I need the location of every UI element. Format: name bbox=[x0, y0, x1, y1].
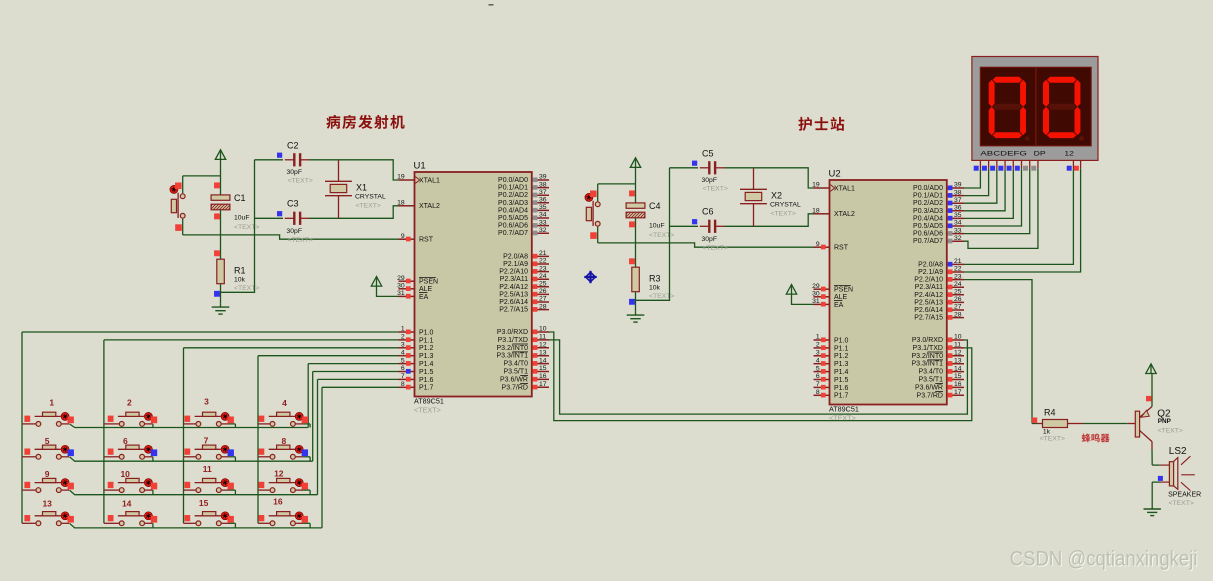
svg-text:P2.6/A14: P2.6/A14 bbox=[914, 307, 943, 314]
svg-text:3: 3 bbox=[204, 396, 209, 406]
svg-text:P1.5: P1.5 bbox=[834, 377, 849, 384]
svg-text:15: 15 bbox=[954, 373, 962, 380]
svg-text:16: 16 bbox=[273, 496, 283, 506]
svg-text:C1: C1 bbox=[234, 193, 246, 203]
svg-text:P0.0/AD0: P0.0/AD0 bbox=[498, 177, 528, 184]
svg-text:<TEXT>: <TEXT> bbox=[649, 293, 674, 300]
svg-text:26: 26 bbox=[954, 296, 962, 303]
svg-text:<TEXT>: <TEXT> bbox=[1040, 436, 1065, 443]
svg-text:8: 8 bbox=[401, 381, 405, 388]
svg-text:ALE: ALE bbox=[419, 286, 433, 293]
svg-text:15: 15 bbox=[199, 498, 209, 508]
svg-text:P0.3/AD3: P0.3/AD3 bbox=[498, 200, 528, 207]
svg-text:24: 24 bbox=[539, 273, 547, 280]
svg-text:RST: RST bbox=[419, 237, 434, 244]
svg-text:<TEXT>: <TEXT> bbox=[1169, 500, 1194, 507]
svg-text:R3: R3 bbox=[649, 274, 661, 284]
svg-text:35: 35 bbox=[539, 204, 547, 211]
svg-text:23: 23 bbox=[539, 265, 547, 272]
svg-text:P1.7: P1.7 bbox=[419, 385, 434, 392]
svg-text:P3.1/TXD: P3.1/TXD bbox=[913, 345, 943, 352]
svg-text:37: 37 bbox=[539, 189, 547, 196]
svg-text:P2.6/A14: P2.6/A14 bbox=[499, 299, 528, 306]
svg-text:10uF: 10uF bbox=[649, 223, 665, 230]
svg-text:8: 8 bbox=[816, 389, 820, 396]
svg-text:5: 5 bbox=[816, 365, 820, 372]
svg-text:12: 12 bbox=[274, 468, 284, 478]
svg-text:P0.1/AD1: P0.1/AD1 bbox=[913, 193, 943, 200]
svg-text:P3.7/RD: P3.7/RD bbox=[502, 384, 528, 391]
svg-text:30: 30 bbox=[812, 291, 820, 298]
svg-text:XTAL1: XTAL1 bbox=[834, 185, 855, 192]
svg-text:ABCDEFG: ABCDEFG bbox=[980, 151, 1027, 158]
svg-text:P3.7/RD: P3.7/RD bbox=[917, 392, 943, 399]
svg-text:P1.4: P1.4 bbox=[834, 369, 849, 376]
svg-text:P3.5/T1: P3.5/T1 bbox=[503, 369, 528, 376]
svg-text:1: 1 bbox=[49, 397, 54, 407]
svg-text:30pF: 30pF bbox=[702, 236, 718, 243]
svg-text:16: 16 bbox=[539, 373, 547, 380]
svg-text:5: 5 bbox=[401, 357, 405, 364]
svg-text:P2.1/A9: P2.1/A9 bbox=[918, 269, 943, 276]
svg-text:P2.3/A11: P2.3/A11 bbox=[500, 276, 528, 283]
svg-text:14: 14 bbox=[539, 357, 547, 364]
svg-text:1k: 1k bbox=[1043, 428, 1051, 435]
svg-text:10k: 10k bbox=[234, 276, 246, 283]
svg-text:P1.1: P1.1 bbox=[419, 337, 434, 344]
svg-text:3: 3 bbox=[401, 342, 405, 349]
svg-text:16: 16 bbox=[954, 381, 962, 388]
svg-text:P0.7/AD7: P0.7/AD7 bbox=[498, 230, 528, 237]
svg-text:P3.2/INT0: P3.2/INT0 bbox=[911, 353, 943, 360]
svg-text:EA: EA bbox=[834, 302, 844, 309]
svg-text:2: 2 bbox=[816, 342, 820, 349]
svg-text:P2.5/A13: P2.5/A13 bbox=[914, 299, 943, 306]
svg-text:14: 14 bbox=[122, 498, 132, 508]
svg-text:2: 2 bbox=[401, 334, 405, 341]
svg-text:P0.0/AD0: P0.0/AD0 bbox=[913, 185, 943, 192]
svg-text:32: 32 bbox=[539, 227, 547, 234]
svg-text:17: 17 bbox=[954, 389, 962, 396]
svg-text:13: 13 bbox=[539, 349, 547, 356]
svg-text:11: 11 bbox=[203, 464, 212, 474]
svg-text:<TEXT>: <TEXT> bbox=[703, 186, 728, 193]
svg-text:1: 1 bbox=[816, 334, 820, 341]
svg-text:6: 6 bbox=[816, 373, 820, 380]
svg-text:13: 13 bbox=[42, 498, 52, 508]
svg-text:14: 14 bbox=[954, 365, 962, 372]
svg-text:10: 10 bbox=[120, 469, 130, 479]
svg-text:8: 8 bbox=[282, 436, 287, 446]
svg-text:P2.3/A11: P2.3/A11 bbox=[915, 284, 943, 291]
svg-text:22: 22 bbox=[954, 266, 962, 273]
svg-text:U2: U2 bbox=[829, 169, 841, 180]
svg-text:<TEXT>: <TEXT> bbox=[356, 202, 381, 209]
svg-text:<TEXT>: <TEXT> bbox=[234, 224, 259, 231]
svg-text:P0.6/AD6: P0.6/AD6 bbox=[498, 223, 528, 230]
svg-text:27: 27 bbox=[539, 296, 547, 303]
svg-text:P2.1/A9: P2.1/A9 bbox=[503, 261, 528, 268]
svg-text:U1: U1 bbox=[414, 161, 426, 172]
svg-text:4: 4 bbox=[282, 398, 287, 408]
svg-text:<TEXT>: <TEXT> bbox=[234, 285, 259, 292]
svg-text:P2.5/A13: P2.5/A13 bbox=[499, 291, 528, 298]
svg-text:39: 39 bbox=[954, 182, 962, 189]
svg-text:<TEXT>: <TEXT> bbox=[771, 210, 796, 217]
svg-text:AT89C51: AT89C51 bbox=[829, 405, 859, 414]
svg-text:4: 4 bbox=[401, 349, 405, 356]
svg-text:9: 9 bbox=[401, 233, 405, 240]
svg-text:30: 30 bbox=[397, 283, 405, 290]
svg-text:27: 27 bbox=[954, 304, 962, 311]
svg-text:P2.2/A10: P2.2/A10 bbox=[499, 269, 528, 276]
svg-text:29: 29 bbox=[397, 275, 405, 282]
svg-text:<TEXT>: <TEXT> bbox=[414, 406, 441, 415]
svg-text:37: 37 bbox=[954, 197, 962, 204]
svg-text:X2: X2 bbox=[771, 191, 782, 201]
svg-text:P3.2/INT0: P3.2/INT0 bbox=[496, 345, 528, 352]
svg-text:34: 34 bbox=[539, 212, 547, 219]
svg-text:P0.7/AD7: P0.7/AD7 bbox=[913, 238, 943, 245]
svg-text:11: 11 bbox=[539, 334, 546, 341]
svg-text:32: 32 bbox=[954, 235, 962, 242]
svg-text:P2.7/A15: P2.7/A15 bbox=[499, 307, 528, 314]
svg-text:6: 6 bbox=[123, 436, 128, 446]
svg-text:23: 23 bbox=[954, 273, 962, 280]
svg-text:21: 21 bbox=[539, 250, 547, 257]
svg-text:P0.4/AD4: P0.4/AD4 bbox=[913, 215, 943, 222]
svg-text:AT89C51: AT89C51 bbox=[414, 397, 444, 406]
svg-text:CRYSTAL: CRYSTAL bbox=[355, 193, 386, 200]
svg-text:P0.3/AD3: P0.3/AD3 bbox=[913, 208, 943, 215]
svg-text:9: 9 bbox=[816, 241, 820, 248]
svg-text:12: 12 bbox=[1064, 151, 1074, 158]
svg-text:33: 33 bbox=[539, 219, 547, 226]
svg-text:P1.6: P1.6 bbox=[834, 385, 849, 392]
svg-text:P0.6/AD6: P0.6/AD6 bbox=[913, 231, 943, 238]
svg-text:SPEAKER: SPEAKER bbox=[1168, 492, 1201, 499]
svg-text:X1: X1 bbox=[356, 183, 367, 193]
svg-text:P3.1/TXD: P3.1/TXD bbox=[498, 337, 528, 344]
svg-text:P1.0: P1.0 bbox=[419, 329, 434, 336]
svg-text:30pF: 30pF bbox=[287, 228, 303, 235]
svg-text:10: 10 bbox=[954, 334, 962, 341]
svg-text:<TEXT>: <TEXT> bbox=[649, 232, 674, 239]
svg-text:28: 28 bbox=[954, 311, 962, 318]
svg-text:P2.2/A10: P2.2/A10 bbox=[914, 277, 943, 284]
svg-text:C2: C2 bbox=[287, 141, 299, 151]
svg-text:12: 12 bbox=[954, 350, 962, 357]
svg-text:10: 10 bbox=[539, 326, 547, 333]
svg-text:4: 4 bbox=[816, 357, 820, 364]
svg-text:<TEXT>: <TEXT> bbox=[288, 237, 313, 244]
svg-text:30pF: 30pF bbox=[702, 177, 718, 184]
svg-text:C5: C5 bbox=[702, 149, 714, 159]
svg-text:34: 34 bbox=[954, 220, 962, 227]
svg-text:PNP: PNP bbox=[1158, 418, 1172, 425]
svg-text:CSDN @cqtianxingkeji: CSDN @cqtianxingkeji bbox=[1010, 548, 1198, 571]
svg-text:P1.3: P1.3 bbox=[834, 361, 849, 368]
svg-text:30pF: 30pF bbox=[287, 169, 303, 176]
svg-text:EA: EA bbox=[419, 294, 429, 301]
svg-text:P1.3: P1.3 bbox=[419, 353, 434, 360]
svg-text:1: 1 bbox=[401, 326, 405, 333]
svg-text:P3.0/RXD: P3.0/RXD bbox=[497, 329, 528, 336]
svg-text:P2.0/A8: P2.0/A8 bbox=[503, 253, 528, 260]
svg-text:PSEN: PSEN bbox=[419, 279, 438, 286]
svg-text:P1.1: P1.1 bbox=[834, 345, 849, 352]
svg-text:9: 9 bbox=[45, 469, 50, 479]
svg-text:39: 39 bbox=[539, 174, 547, 181]
svg-text:25: 25 bbox=[539, 281, 547, 288]
svg-text:25: 25 bbox=[954, 289, 962, 296]
svg-text:P2.0/A8: P2.0/A8 bbox=[918, 261, 943, 268]
svg-text:P0.1/AD1: P0.1/AD1 bbox=[498, 185, 528, 192]
svg-text:P2.4/A12: P2.4/A12 bbox=[499, 284, 528, 291]
svg-text:29: 29 bbox=[812, 283, 820, 290]
svg-text:<TEXT>: <TEXT> bbox=[288, 178, 313, 185]
svg-text:P3.5/T1: P3.5/T1 bbox=[918, 377, 943, 384]
svg-text:P1.2: P1.2 bbox=[419, 345, 434, 352]
svg-text:22: 22 bbox=[539, 258, 547, 265]
svg-text:10uF: 10uF bbox=[234, 215, 250, 222]
svg-text:R1: R1 bbox=[234, 266, 246, 276]
svg-text:5: 5 bbox=[45, 436, 50, 446]
svg-text:P3.3/INT1: P3.3/INT1 bbox=[496, 353, 528, 360]
svg-text:P3.6/WR: P3.6/WR bbox=[915, 384, 943, 391]
svg-text:XTAL1: XTAL1 bbox=[419, 177, 440, 184]
svg-text:P1.7: P1.7 bbox=[834, 393, 849, 400]
svg-text:P0.5/AD5: P0.5/AD5 bbox=[913, 223, 943, 230]
svg-text:P0.2/AD2: P0.2/AD2 bbox=[498, 192, 528, 199]
svg-text:C3: C3 bbox=[287, 198, 299, 208]
svg-text:7: 7 bbox=[204, 436, 209, 446]
svg-text:C6: C6 bbox=[702, 206, 714, 216]
svg-text:P1.4: P1.4 bbox=[419, 361, 434, 368]
svg-text:CRYSTAL: CRYSTAL bbox=[770, 201, 801, 208]
svg-text:P3.6/WR: P3.6/WR bbox=[500, 376, 528, 383]
svg-text:R4: R4 bbox=[1044, 408, 1056, 418]
svg-text:21: 21 bbox=[954, 258, 962, 265]
svg-text:7: 7 bbox=[401, 373, 405, 380]
svg-text:12: 12 bbox=[539, 342, 547, 349]
svg-text:P2.7/A15: P2.7/A15 bbox=[914, 315, 943, 322]
svg-text:P1.6: P1.6 bbox=[419, 377, 434, 384]
svg-text:38: 38 bbox=[539, 181, 547, 188]
svg-text:P0.5/AD5: P0.5/AD5 bbox=[498, 215, 528, 222]
svg-text:RST: RST bbox=[834, 245, 849, 252]
svg-text:P1.2: P1.2 bbox=[834, 353, 849, 360]
svg-text:11: 11 bbox=[954, 342, 961, 349]
svg-text:17: 17 bbox=[539, 381, 547, 388]
svg-text:LS2: LS2 bbox=[1169, 446, 1187, 457]
svg-text:24: 24 bbox=[954, 281, 962, 288]
svg-text:26: 26 bbox=[539, 288, 547, 295]
svg-text:P1.0: P1.0 bbox=[834, 337, 849, 344]
svg-text:P3.3/INT1: P3.3/INT1 bbox=[911, 361, 943, 368]
svg-text:XTAL2: XTAL2 bbox=[834, 211, 855, 218]
svg-text:ALE: ALE bbox=[834, 294, 848, 301]
svg-text:7: 7 bbox=[816, 381, 820, 388]
svg-text:36: 36 bbox=[954, 205, 962, 212]
svg-text:15: 15 bbox=[539, 365, 547, 372]
svg-text:XTAL2: XTAL2 bbox=[419, 203, 440, 210]
svg-text:DP: DP bbox=[1034, 151, 1047, 158]
svg-text:PSEN: PSEN bbox=[834, 287, 853, 294]
svg-text:<TEXT>: <TEXT> bbox=[703, 245, 728, 252]
svg-text:P0.2/AD2: P0.2/AD2 bbox=[913, 200, 943, 207]
svg-text:3: 3 bbox=[816, 350, 820, 357]
svg-text:P2.4/A12: P2.4/A12 bbox=[914, 292, 943, 299]
svg-text:P3.4/T0: P3.4/T0 bbox=[503, 361, 528, 368]
svg-text:33: 33 bbox=[954, 227, 962, 234]
svg-text:13: 13 bbox=[954, 357, 962, 364]
svg-text:P1.5: P1.5 bbox=[419, 369, 434, 376]
svg-text:6: 6 bbox=[401, 365, 405, 372]
svg-text:2: 2 bbox=[127, 397, 132, 407]
svg-text:36: 36 bbox=[539, 197, 547, 204]
svg-text:P0.4/AD4: P0.4/AD4 bbox=[498, 207, 528, 214]
svg-text:C4: C4 bbox=[649, 201, 661, 211]
svg-text:38: 38 bbox=[954, 189, 962, 196]
svg-text:P3.4/T0: P3.4/T0 bbox=[918, 369, 943, 376]
svg-text:10k: 10k bbox=[649, 284, 661, 291]
svg-text:28: 28 bbox=[539, 303, 547, 310]
svg-text:35: 35 bbox=[954, 212, 962, 219]
svg-text:<TEXT>: <TEXT> bbox=[1158, 427, 1183, 434]
svg-text:P3.0/RXD: P3.0/RXD bbox=[912, 337, 943, 344]
